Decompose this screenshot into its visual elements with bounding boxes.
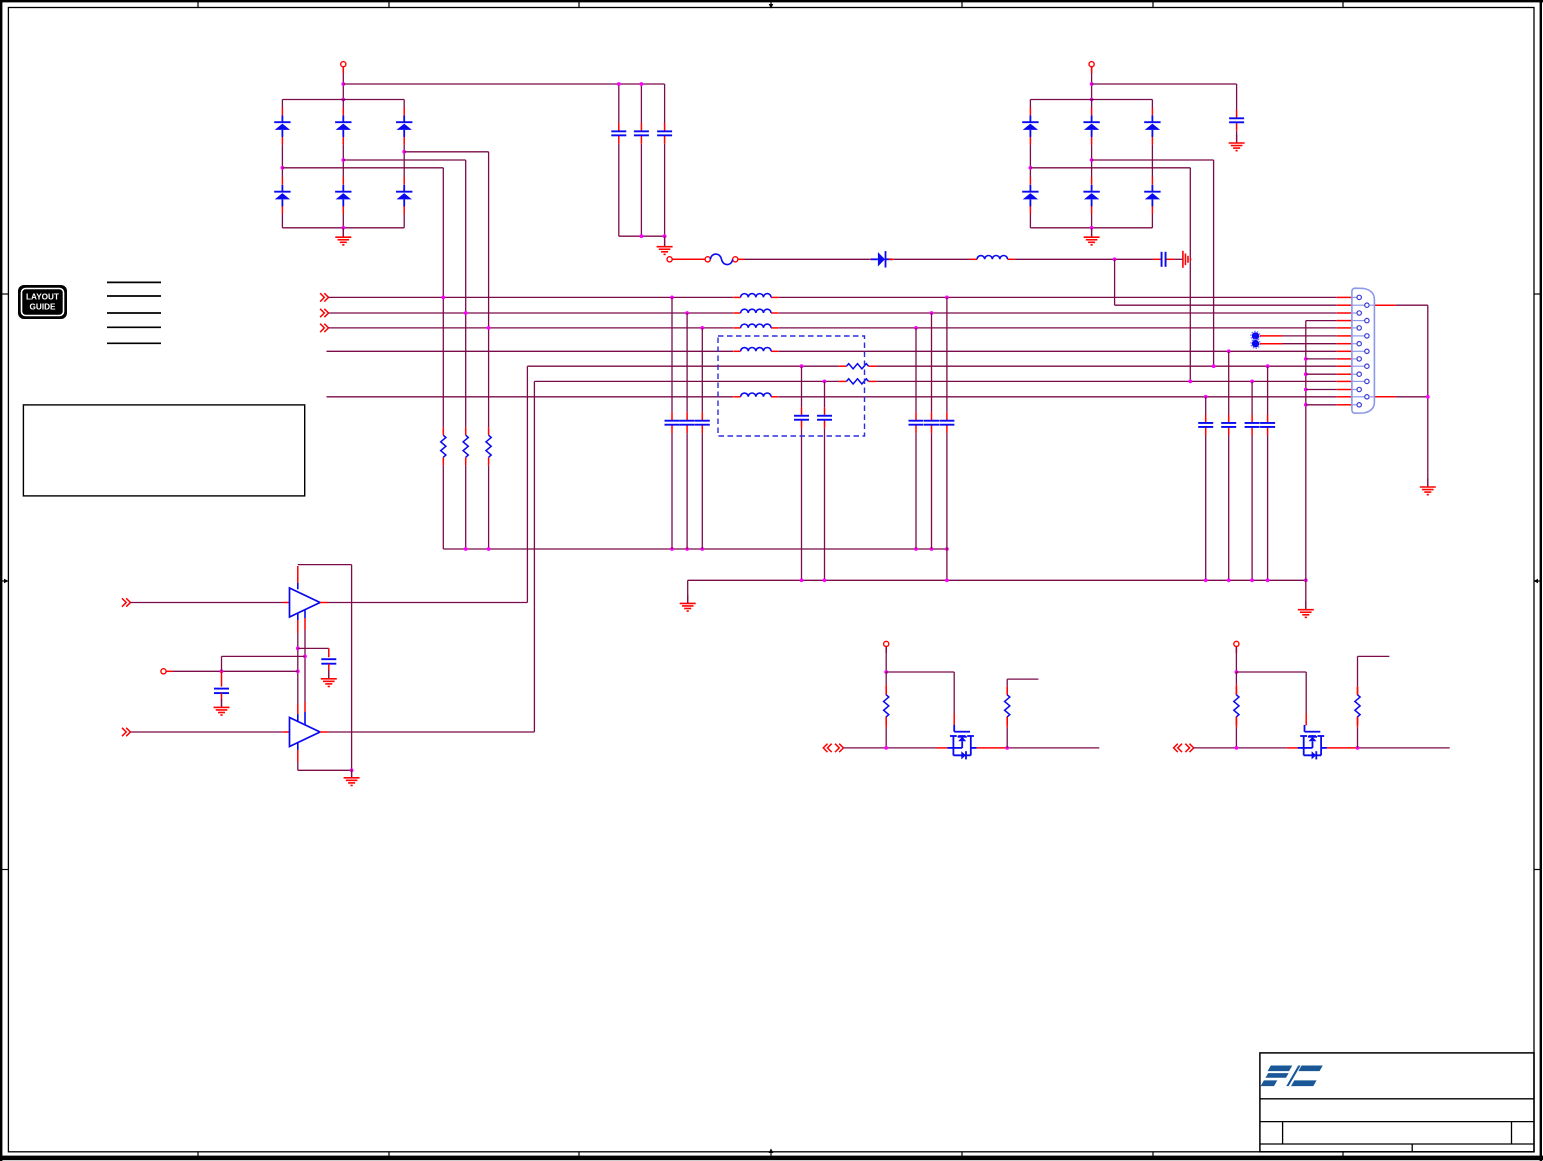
wire to cap bank C1-C3: [343, 83, 664, 85]
resistor R3: [486, 427, 491, 465]
junction: [800, 364, 804, 368]
pin stub: [1287, 747, 1298, 749]
wire phase2 drop: [465, 160, 467, 427]
diode D6: [396, 185, 412, 207]
legend lines: [107, 282, 161, 343]
junction: [914, 547, 918, 551]
resistor R9: [1355, 687, 1360, 725]
ground: [335, 229, 351, 245]
wire: [342, 145, 344, 177]
junction: [1304, 403, 1308, 407]
input port chevron: [122, 598, 130, 606]
wire: [915, 328, 917, 412]
wire: [1305, 672, 1307, 714]
pin stub: [1305, 714, 1307, 726]
ground: [214, 699, 230, 715]
buffer power pin V+: [297, 613, 299, 722]
junction: [1090, 98, 1094, 102]
wire bus line 1: [779, 296, 1337, 298]
wire bus line 7: [327, 396, 734, 398]
wire: [488, 465, 490, 549]
wire stub B: [1358, 655, 1390, 657]
pin stub: [937, 747, 948, 749]
input port chevron: [122, 728, 130, 736]
wire phase b drop: [1213, 160, 1215, 366]
input port chevron: [320, 324, 328, 332]
wire phase b: [1092, 159, 1214, 161]
wire: [342, 214, 344, 228]
pin stub: [281, 137, 283, 145]
wire: [351, 770, 353, 777]
wire reference: [173, 670, 298, 672]
junction: [1090, 82, 1094, 86]
junction: [441, 296, 445, 300]
junction: [670, 296, 674, 300]
wire: [894, 258, 970, 260]
junction: [930, 547, 934, 551]
wire: [342, 100, 344, 108]
capacitor: [1221, 414, 1236, 435]
wire: [946, 297, 948, 412]
diode D10: [1083, 185, 1099, 207]
wire: [1029, 100, 1031, 108]
pin stub: [283, 731, 290, 733]
pin stub: [403, 177, 405, 185]
wire stub A: [1007, 678, 1038, 680]
capacitor: [924, 412, 939, 433]
buffer2 bottom pin: [297, 743, 299, 770]
junction: [487, 326, 491, 330]
diode D11: [1144, 115, 1160, 137]
pin stub: [342, 177, 344, 185]
wire: [403, 214, 405, 228]
wire: [618, 84, 620, 123]
junction: [1188, 380, 1192, 384]
pin stub: [1151, 137, 1153, 145]
wire: [1205, 435, 1207, 580]
pin stub: [1029, 206, 1031, 214]
wire bus line 5: [527, 365, 838, 367]
wire bus line 3: [329, 327, 734, 329]
junction: [670, 547, 674, 551]
wire: [342, 228, 344, 237]
pin stub: [403, 108, 405, 116]
pin stub: [1337, 343, 1352, 345]
inductor L6: [733, 393, 778, 397]
junction: [1227, 578, 1231, 582]
wire: [1015, 258, 1153, 260]
wire: [1267, 366, 1269, 414]
wire buffer power rail right: [351, 565, 353, 771]
junction: [884, 670, 888, 674]
capacitor: [909, 412, 924, 433]
wire bus line 6: [534, 380, 838, 382]
wire: [1205, 397, 1207, 415]
wire: [1251, 435, 1253, 580]
pin stub: [281, 177, 283, 185]
junction: [1250, 578, 1254, 582]
power port: [161, 669, 166, 674]
wire: [281, 100, 283, 108]
junction: [341, 158, 345, 162]
wire to capacitor C4: [1092, 83, 1237, 85]
junction: [823, 380, 827, 384]
wire: [1236, 84, 1238, 111]
pin stub: [281, 206, 283, 214]
pin stub: [1091, 67, 1093, 74]
wire: [1151, 145, 1153, 177]
pin stub: [1337, 335, 1352, 337]
pin stub: [738, 258, 745, 260]
pin stub: [1091, 206, 1093, 214]
resistor R5: [839, 379, 877, 384]
pin stub: [1337, 404, 1352, 406]
wire to pin: [1306, 373, 1337, 375]
junction: [1204, 395, 1208, 399]
wire phase1 drop: [442, 168, 444, 428]
pin stub: [1337, 327, 1352, 329]
junction: [1266, 364, 1270, 368]
pin stub: [1260, 335, 1283, 337]
junction: [341, 226, 345, 230]
diode D4: [335, 185, 351, 207]
wire: [1305, 580, 1307, 609]
junction: [945, 578, 949, 582]
capacitor: [1245, 414, 1260, 435]
wire: [1235, 647, 1237, 673]
wire buffer1 output rise: [526, 366, 528, 602]
input port chevron: [320, 293, 328, 301]
notes box: [23, 405, 304, 496]
resistor R9 leads: [1357, 656, 1359, 748]
wire to pin: [1306, 389, 1337, 391]
junction: [296, 647, 300, 651]
ground: [1298, 601, 1314, 617]
wire phase a: [1030, 167, 1190, 169]
wire buffer1 input: [130, 602, 283, 604]
resistor R1: [441, 427, 446, 465]
junction: [1113, 257, 1117, 261]
ground (rotated): [1183, 251, 1191, 268]
capacitor C3: [657, 123, 672, 144]
wire: [745, 258, 870, 260]
resistor R6 leads: [885, 672, 887, 748]
wire bridge2 bottom rail: [1030, 227, 1152, 229]
wire: [931, 313, 933, 412]
wire: [701, 328, 703, 412]
junction: [341, 98, 345, 102]
pin stub (blue): [297, 583, 299, 589]
wire bus line 3: [779, 327, 1337, 329]
pin stub: [1260, 343, 1283, 345]
connector J1 (DB-15): [1352, 288, 1375, 413]
capacitor: [680, 412, 695, 433]
wire: [946, 549, 948, 580]
ground: [344, 769, 360, 785]
pin stub: [977, 747, 1008, 749]
resistor R6: [884, 687, 889, 725]
layout guide badge: [18, 285, 67, 319]
wire: [1151, 100, 1153, 108]
wire cap bank bottom: [619, 235, 665, 237]
wire: [1251, 381, 1253, 414]
capacitor: [939, 412, 954, 433]
wire: [1283, 335, 1337, 337]
wire: [1091, 145, 1093, 177]
pin stub: [1029, 137, 1031, 145]
inductor L2: [733, 294, 778, 298]
pin stub: [1337, 304, 1352, 306]
junction: [464, 311, 468, 315]
wire: [221, 656, 223, 671]
pin stub: [870, 258, 875, 260]
wire: [801, 428, 803, 580]
diode D12: [1144, 185, 1160, 207]
junction: [1356, 746, 1360, 750]
wire: [664, 144, 666, 236]
wire: [671, 433, 673, 549]
wire: [1174, 258, 1183, 260]
power port: [341, 62, 346, 67]
wire rail A: [443, 548, 947, 550]
wire: [824, 428, 826, 580]
junction: [1090, 158, 1094, 162]
pin stub: [342, 137, 344, 145]
wire: [403, 145, 405, 177]
junction: [1235, 746, 1239, 750]
junction: [281, 166, 285, 170]
diode D8: [1022, 185, 1038, 207]
junction: [685, 311, 689, 315]
wire bus line 6: [877, 380, 1337, 382]
wire: [1228, 351, 1230, 414]
EMI filter dashed box: [718, 336, 865, 436]
wire output B: [1194, 747, 1287, 749]
junction: [884, 746, 888, 750]
junction: [800, 578, 804, 582]
ground: [1420, 479, 1436, 495]
ground: [680, 595, 696, 611]
fuse F1: [705, 254, 738, 265]
wire buffer2 output rise: [533, 381, 535, 732]
wire: [1091, 228, 1093, 237]
inductor L4: [733, 324, 778, 328]
capacitor C7: [321, 648, 336, 678]
pin stub: [342, 108, 344, 116]
pin stub: [403, 206, 405, 214]
wire: [1283, 343, 1337, 345]
offpage chevron (left): [1174, 744, 1182, 752]
wire to pin: [1306, 358, 1337, 360]
pin stub: [281, 108, 283, 116]
junction: [402, 150, 406, 154]
junction: [640, 234, 644, 238]
wire output A: [843, 747, 936, 749]
wire rail B: [688, 579, 1306, 581]
pin stub: [672, 258, 705, 260]
svg-text:LAYOUT: LAYOUT: [26, 293, 59, 302]
wire bridge1 top rail: [282, 99, 404, 101]
junction: [914, 326, 918, 330]
input port chevron: [1185, 744, 1193, 752]
power port: [884, 641, 889, 646]
wire: [1151, 214, 1153, 228]
MOSFET Q2: [1298, 725, 1327, 760]
junction: [1304, 578, 1308, 582]
wire: [1396, 304, 1428, 306]
junction: [1227, 349, 1231, 353]
junction: [930, 311, 934, 315]
capacitor: [817, 407, 832, 428]
wire: [1029, 145, 1031, 177]
wire: [915, 433, 917, 549]
pin stub: [1337, 389, 1352, 391]
junction: [1005, 746, 1009, 750]
pin stub: [283, 602, 290, 604]
pin stub: [1337, 358, 1352, 360]
wire: [442, 465, 444, 549]
wire: [687, 580, 689, 603]
wire buffer2 input: [130, 731, 283, 733]
resistor R7: [1005, 687, 1010, 725]
ground: [1084, 229, 1100, 245]
pin stub: [889, 258, 894, 260]
pin stub: [1327, 747, 1358, 749]
wire buffer1 output: [328, 602, 528, 604]
wire: [801, 366, 803, 407]
buffer U1A: [290, 588, 321, 617]
diode D5: [396, 115, 412, 137]
wire gate feed: [1236, 671, 1306, 673]
capacitor C4: [1229, 110, 1244, 131]
wire connector ground bus: [1305, 321, 1307, 581]
resistor R4: [839, 364, 877, 369]
wire to pin: [1306, 404, 1337, 406]
junction: [350, 768, 354, 772]
wire: [298, 647, 329, 649]
junction: [640, 82, 644, 86]
junction: [617, 82, 621, 86]
wire: [1236, 131, 1238, 143]
capacitor: [794, 407, 809, 428]
wire: [281, 214, 283, 228]
ground: [1229, 135, 1245, 151]
junction: [296, 669, 300, 673]
junction: [700, 547, 704, 551]
diode D2: [274, 185, 290, 207]
diode D7: [1022, 115, 1038, 137]
junction: [303, 655, 307, 659]
junction: [487, 547, 491, 551]
offpage chevron (left): [823, 744, 831, 752]
wire buffer2 output: [328, 731, 535, 733]
input port chevron: [320, 309, 328, 317]
title block: [1260, 1053, 1534, 1152]
junction: [1304, 357, 1308, 361]
wire: [931, 433, 933, 549]
wire output B right: [1358, 747, 1450, 749]
capacitor: [665, 412, 680, 433]
pin stub: [1151, 108, 1153, 116]
wire: [1029, 214, 1031, 228]
wire: [281, 145, 283, 177]
MOSFET Q1: [947, 725, 976, 760]
wire: [618, 144, 620, 236]
wire: [222, 655, 306, 657]
wire drop to connector: [1114, 259, 1116, 305]
junction: [341, 82, 345, 86]
junction: [945, 547, 949, 551]
junction: [823, 578, 827, 582]
inductor L5: [733, 347, 778, 351]
pin stub: [320, 602, 328, 604]
wire phase3 drop: [488, 152, 490, 428]
capacitor C2: [634, 123, 649, 144]
wire bus line 7: [779, 396, 1337, 398]
pin stub: [1337, 380, 1352, 382]
ferrite bead FB2: [1251, 339, 1260, 348]
wire: [701, 433, 703, 549]
wire: [686, 313, 688, 412]
pin stub: [1151, 177, 1153, 185]
wire: [640, 144, 642, 236]
pin stub: [403, 137, 405, 145]
wire: [824, 381, 826, 407]
junction: [1029, 166, 1033, 170]
wire bridge2 top rail: [1030, 99, 1152, 101]
FIC logo: [1261, 1066, 1323, 1087]
pin stub: [953, 714, 955, 726]
resistor R8: [1234, 687, 1239, 725]
wire: [1267, 435, 1269, 580]
pin stub: [1029, 177, 1031, 185]
pin stub: [1029, 108, 1031, 116]
wire output A right: [1007, 747, 1099, 749]
ground: [321, 670, 337, 686]
wire bus line 2: [779, 312, 1337, 314]
pin stub: [1337, 312, 1352, 314]
pin stub: [297, 566, 299, 583]
wire phase2: [343, 159, 465, 161]
wire: [1091, 100, 1093, 108]
wire: [885, 647, 887, 673]
inductor L1: [970, 255, 1015, 259]
ferrite bead FB1: [1251, 331, 1260, 340]
junction: [1304, 388, 1308, 392]
capacitor C6: [214, 671, 229, 707]
diode D13: [871, 251, 893, 267]
wire: [664, 236, 666, 246]
pin stub: [1091, 177, 1093, 185]
pin stub: [1337, 373, 1352, 375]
wire buffer power rail top: [298, 564, 352, 566]
wire: [640, 84, 642, 123]
junction: [1426, 395, 1430, 399]
wire bus line 4: [327, 350, 734, 352]
resistor R2: [463, 427, 468, 465]
junction: [1212, 364, 1216, 368]
resistor R7 leads: [1006, 679, 1008, 748]
junction: [1204, 578, 1208, 582]
pin stub: [1337, 365, 1352, 367]
wire: [953, 672, 955, 714]
junction: [1090, 226, 1094, 230]
pin stub: [1091, 137, 1093, 145]
wire: [1427, 305, 1429, 486]
junction: [685, 547, 689, 551]
wire: [1228, 435, 1230, 580]
wire: [671, 297, 673, 412]
